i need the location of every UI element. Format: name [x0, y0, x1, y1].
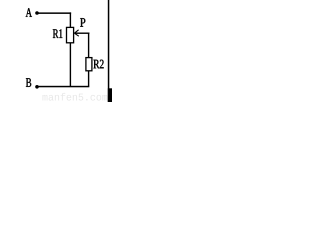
resistor R2 label	[93, 60, 103, 69]
node B label	[26, 78, 31, 87]
potentiometer wiper arrow	[74, 30, 89, 36]
node A label	[26, 8, 32, 17]
wire bottom horizontal B to R2 leg	[37, 86, 89, 88]
watermark manfen5.com	[42, 93, 107, 101]
wire R2 bottom leg	[88, 71, 89, 87]
resistor R1 label	[53, 29, 63, 38]
wiper label P	[80, 18, 85, 27]
resistor R2	[86, 58, 92, 71]
node B terminal dot	[35, 85, 39, 89]
wire top horizontal A to corner	[37, 12, 71, 14]
wire vertical corner down to R1 top	[70, 12, 71, 27]
wire R1 bottom leg	[70, 43, 71, 87]
border line right edge	[108, 0, 110, 102]
node A terminal dot	[35, 11, 39, 15]
border corner block bottom right	[108, 88, 112, 102]
wire wiper arm down to R2 top	[88, 33, 89, 58]
resistor R1 potentiometer body	[67, 27, 74, 42]
